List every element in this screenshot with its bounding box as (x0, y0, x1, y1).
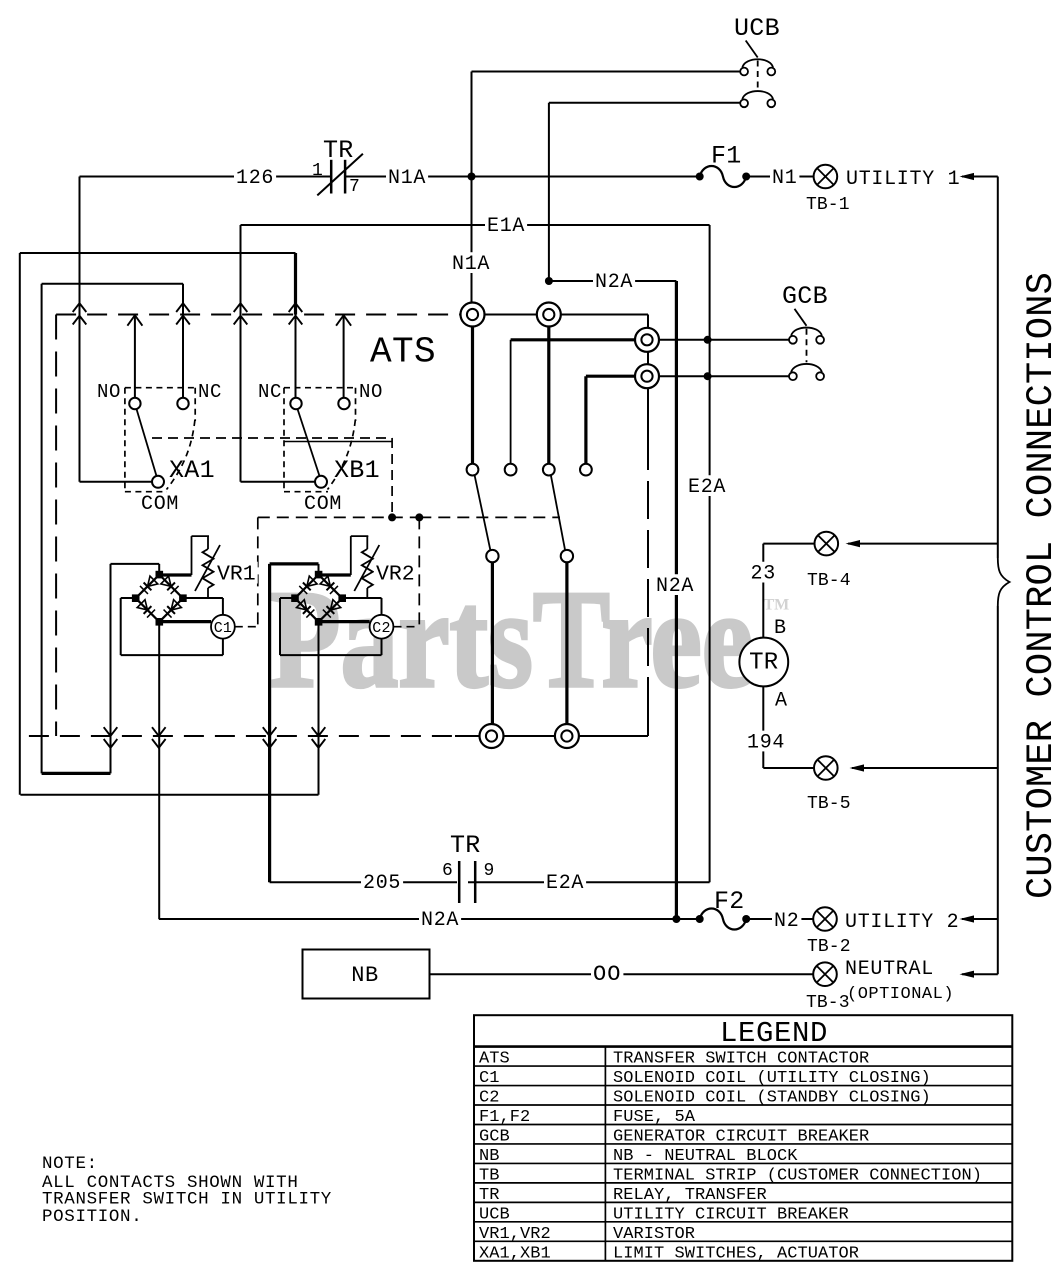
svg-text:NEUTRAL: NEUTRAL (845, 958, 934, 981)
svg-text:9: 9 (484, 861, 495, 881)
svg-text:TR: TR (479, 1186, 500, 1205)
svg-text:SOLENOID COIL (STANDBY CLOSING: SOLENOID COIL (STANDBY CLOSING) (613, 1089, 931, 1108)
svg-text:N2A: N2A (421, 909, 459, 932)
svg-text:E2A: E2A (688, 476, 726, 499)
svg-text:XA1,XB1: XA1,XB1 (479, 1244, 551, 1263)
svg-text:VR1,VR2: VR1,VR2 (479, 1225, 551, 1244)
svg-text:TM: TM (764, 597, 790, 614)
svg-text:7: 7 (349, 177, 360, 197)
svg-text:NB: NB (479, 1147, 500, 1166)
svg-text:NOTE:: NOTE: (42, 1154, 98, 1174)
svg-text:E1A: E1A (487, 215, 525, 238)
svg-text:NC: NC (198, 381, 222, 403)
svg-text:NB: NB (351, 963, 379, 988)
svg-text:N2: N2 (774, 910, 799, 933)
svg-text:F1,F2: F1,F2 (479, 1108, 530, 1127)
svg-text:CUSTOMER CONTROL CONNECTIONS: CUSTOMER CONTROL CONNECTIONS (1021, 272, 1059, 899)
svg-text:F1: F1 (711, 142, 742, 171)
svg-text:COM: COM (141, 493, 179, 516)
svg-text:ATS: ATS (479, 1050, 510, 1069)
svg-text:TR: TR (323, 136, 354, 165)
svg-text:23: 23 (751, 563, 776, 586)
svg-text:NC: NC (258, 381, 282, 403)
svg-text:LIMIT SWITCHES, ACTUATOR: LIMIT SWITCHES, ACTUATOR (613, 1244, 859, 1263)
svg-text:TB-4: TB-4 (807, 571, 851, 591)
svg-text:N2A: N2A (595, 271, 633, 294)
svg-text:UCB: UCB (479, 1205, 510, 1224)
svg-text:XA1: XA1 (169, 456, 215, 485)
svg-text:C2: C2 (479, 1089, 500, 1108)
svg-text:126: 126 (236, 167, 274, 190)
svg-text:F2: F2 (714, 887, 745, 916)
svg-text:(OPTIONAL): (OPTIONAL) (847, 985, 954, 1004)
svg-text:GCB: GCB (782, 282, 828, 311)
svg-text:RELAY, TRANSFER: RELAY, TRANSFER (613, 1186, 767, 1205)
svg-text:FUSE, 5A: FUSE, 5A (613, 1108, 696, 1127)
svg-text:TB: TB (479, 1166, 500, 1185)
svg-text:TERMINAL STRIP (CUSTOMER CONNE: TERMINAL STRIP (CUSTOMER CONNECTION) (613, 1166, 982, 1185)
svg-text:TR: TR (450, 831, 481, 860)
svg-text:NB - NEUTRAL BLOCK: NB - NEUTRAL BLOCK (613, 1147, 798, 1166)
svg-text:N1: N1 (772, 167, 797, 190)
svg-text:TB-2: TB-2 (807, 937, 851, 957)
svg-text:COM: COM (304, 493, 342, 516)
svg-text:C1: C1 (214, 620, 232, 637)
svg-text:GENERATOR CIRCUIT BREAKER: GENERATOR CIRCUIT BREAKER (613, 1127, 869, 1146)
svg-text:UTILITY 2: UTILITY 2 (845, 911, 959, 934)
svg-text:205: 205 (363, 872, 401, 895)
svg-text:B: B (774, 617, 787, 640)
svg-text:VARISTOR: VARISTOR (613, 1225, 695, 1244)
svg-text:A: A (775, 690, 788, 713)
svg-text:NO: NO (359, 381, 383, 403)
svg-text:OO: OO (593, 962, 621, 987)
svg-text:TRANSFER SWITCH CONTACTOR: TRANSFER SWITCH CONTACTOR (613, 1050, 869, 1069)
svg-text:VR1: VR1 (217, 563, 256, 587)
svg-text:SOLENOID COIL (UTILITY CLOSING: SOLENOID COIL (UTILITY CLOSING) (613, 1069, 931, 1088)
svg-text:VR2: VR2 (376, 563, 415, 587)
svg-text:UTILITY CIRCUIT BREAKER: UTILITY CIRCUIT BREAKER (613, 1205, 849, 1224)
svg-text:POSITION.: POSITION. (42, 1207, 142, 1227)
svg-text:UCB: UCB (734, 14, 780, 43)
svg-text:TB-5: TB-5 (807, 794, 851, 814)
svg-text:1: 1 (312, 161, 323, 181)
svg-text:TB-1: TB-1 (806, 195, 850, 215)
svg-text:XB1: XB1 (334, 456, 380, 485)
svg-text:C1: C1 (479, 1069, 500, 1088)
svg-text:C2: C2 (372, 620, 390, 637)
svg-text:TR: TR (749, 649, 778, 676)
svg-text:N2A: N2A (656, 575, 694, 598)
svg-text:TB-3: TB-3 (806, 993, 850, 1013)
svg-text:6: 6 (442, 861, 453, 881)
svg-text:UTILITY 1: UTILITY 1 (846, 168, 960, 191)
svg-text:N1A: N1A (388, 167, 426, 190)
svg-text:E2A: E2A (546, 872, 584, 895)
svg-text:NO: NO (97, 381, 121, 403)
svg-text:ATS: ATS (370, 332, 436, 373)
svg-text:N1A: N1A (452, 253, 490, 276)
svg-text:194: 194 (747, 731, 785, 754)
svg-text:GCB: GCB (479, 1127, 510, 1146)
svg-text:LEGEND: LEGEND (720, 1017, 828, 1050)
